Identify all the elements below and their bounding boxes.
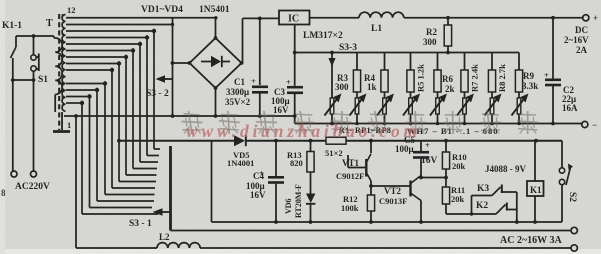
terminal AC A (11, 171, 17, 177)
terminal DC- (582, 120, 597, 130)
wire transformer tap 6 (66, 55, 157, 175)
wire transformer tap 2 (66, 88, 154, 201)
wire trimmer bus (295, 122, 583, 126)
wire bridge left input (171, 18, 190, 118)
bridge rectifier VD1-VD4 (188, 36, 244, 90)
resistor R10 (442, 141, 466, 180)
capacitor C2 (544, 18, 578, 126)
resistor R5 + trimmer RP4 (403, 53, 426, 124)
label T (46, 18, 53, 29)
wire transformer tap 10 (66, 29, 160, 149)
switch S2 (559, 141, 577, 222)
wire to AC terminal A (12, 80, 14, 171)
label S1 (38, 75, 48, 85)
wire transformer tap 8 (66, 42, 158, 162)
wire bridge right to IC (243, 17, 280, 64)
transistor VT1 C9012F (336, 141, 371, 186)
relay contact K1-1 (11, 36, 17, 82)
wire ground bus (64, 115, 295, 117)
transistor VT2 C9013F (371, 176, 421, 223)
label K1-1 (2, 21, 22, 31)
terminal DC+ (583, 13, 598, 23)
wire K1-1/S1 junction (13, 78, 36, 82)
wire transformer tap 9 (66, 35, 159, 155)
relay coil K1 (527, 141, 544, 222)
label J4088-9V (485, 164, 526, 174)
resistor R3 + trimmer RP2 (335, 53, 367, 124)
wire lower left edge (211, 141, 213, 222)
IC U1 LM317 (279, 11, 343, 42)
switch S3-1 wiper (129, 146, 171, 231)
resistor R4 + trimmer RP3 (364, 53, 394, 124)
transformer bottom mark (53, 112, 70, 132)
wire S3-3 bus (293, 51, 519, 55)
wire transformer tap 5 (66, 61, 156, 181)
wire lower bottom bus (212, 220, 563, 224)
transformer T secondary winding (62, 15, 65, 112)
wire primary top (16, 34, 54, 38)
switch S1 (31, 36, 39, 80)
wire top rail (66, 16, 218, 19)
wire bridge top to rail (215, 18, 217, 38)
resistor R8 + trimmer RP7 (485, 53, 508, 124)
label 1N5401 (199, 5, 230, 15)
transformer T primary coil (53, 36, 62, 112)
label AC220V (15, 182, 50, 192)
wire transformer tap 4 (66, 68, 155, 188)
resistor R1 51x2 (325, 137, 346, 158)
watermark company text (182, 111, 539, 134)
relay contact K2 (476, 201, 517, 214)
label WH7-B1-.1-680 (407, 126, 499, 136)
label DC 2~16V 2A (564, 25, 589, 55)
terminal AC out 1 (571, 227, 577, 233)
wire VT2 collector to R10/R11 node (419, 176, 446, 180)
label S3-3 (339, 43, 357, 53)
resistor R12 (341, 184, 375, 222)
switch S3-3 wiper arrow / RP1 column (325, 53, 342, 126)
terminal AC B (31, 171, 37, 177)
diode VD6 (284, 184, 315, 222)
wire contacts to bus (516, 196, 518, 223)
terminal AC out 2 (571, 245, 577, 251)
wire AC line 1 (171, 230, 572, 232)
resistor R13 (287, 141, 314, 194)
capacitor C5 (395, 135, 438, 176)
relay contact K3 (472, 184, 517, 196)
page artifact (1, 188, 6, 198)
resistor R7 + trimmer RP6 (457, 53, 480, 124)
label VD1~VD4 (141, 5, 183, 15)
capacitor C4 (246, 141, 284, 222)
resistor R11 (442, 178, 465, 215)
capacitor C3 (271, 77, 303, 124)
resistor R6 + trimmer RP5 (430, 53, 455, 124)
wire IC output rail (310, 16, 584, 20)
wire lower top bus (119, 139, 562, 143)
transformer core (59, 14, 62, 130)
wire transformer tap 1 (66, 94, 152, 207)
wire transformer tap 7 (66, 48, 157, 168)
label AC 2~16W 3A (500, 235, 562, 246)
switch S3-2 wiper (146, 75, 173, 99)
diode VD5 (227, 135, 254, 168)
resistor R2 (423, 18, 452, 53)
capacitor C1 (225, 18, 268, 118)
wire transformer tap 3 (66, 81, 155, 194)
wire transformer tap 0 (66, 101, 158, 214)
label tap 1 (67, 120, 71, 130)
label tap 12 (67, 5, 76, 15)
wire IC to S3-3 bus (294, 25, 296, 86)
wire transformer tap 11 (66, 23, 174, 26)
inductor L1 (359, 12, 404, 34)
wire R11 to contacts (446, 196, 496, 216)
wire to AC terminal B (33, 80, 35, 171)
watermark url (186, 121, 421, 141)
wire bridge bottom to ground bus (214, 88, 218, 118)
resistor R9 + trimmer RP8 (512, 53, 539, 124)
inductor L2 (76, 232, 571, 248)
label RP1~RP8 (339, 126, 391, 135)
wire tap common down (74, 114, 78, 248)
